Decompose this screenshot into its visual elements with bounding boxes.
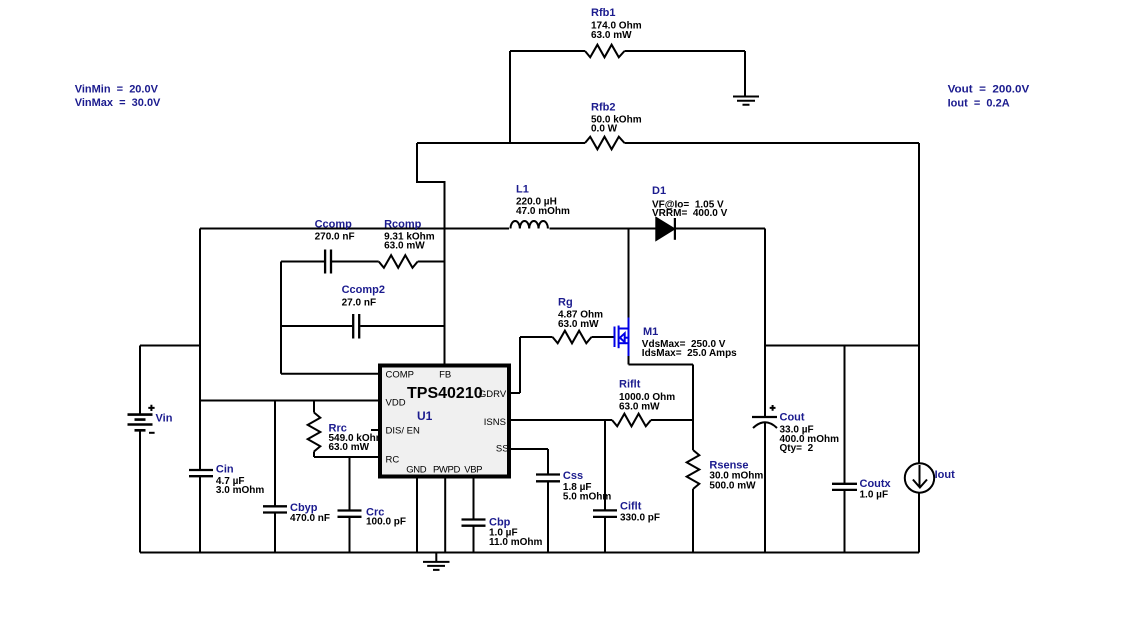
svg-text:330.0 pF: 330.0 pF [620,512,660,523]
resistor Rsense [687,450,700,489]
wire Cbyp branch [274,401,276,553]
resistor Rg [553,331,592,344]
svg-text:63.0 mW: 63.0 mW [558,319,599,330]
svg-text:11.0 mOhm: 11.0 mOhm [489,537,542,548]
wire right vertical x919 [918,143,920,553]
plus sign Cout [770,405,776,411]
svg-text:Vout = 200.0V: Vout = 200.0V [948,84,1030,96]
battery Vin [128,415,153,431]
svg-text:63.0 mW: 63.0 mW [619,401,660,412]
capacitor Ciflt [593,510,617,517]
svg-text:U1: U1 [417,409,433,423]
wire D1 out vertical x765 [764,229,766,553]
resistor Rrc [308,413,321,452]
wire main rail y228 [200,228,765,230]
svg-text:VRRM= 400.0 V: VRRM= 400.0 V [652,208,728,219]
wire ISNS branch [511,419,693,421]
svg-text:Qty= 2: Qty= 2 [780,443,814,454]
wire VBP pin [473,479,475,553]
svg-text:L1: L1 [516,184,529,196]
wire Ccomp2 branch [281,325,445,327]
svg-text:Coutx: Coutx [860,478,892,490]
svg-text:GND: GND [406,464,426,475]
resistor Riflt [612,414,651,427]
svg-text:TPS40210: TPS40210 [407,385,483,402]
svg-text:VBP: VBP [464,464,482,475]
svg-text:Ccomp2: Ccomp2 [342,284,385,296]
wire Ccomp branch [281,261,445,263]
wire SS branch [511,449,548,553]
wire GND pin [416,479,418,553]
wire PWPD pin [444,479,446,553]
minus sign Vin [149,432,155,434]
svg-text:Cout: Cout [780,412,805,424]
svg-text:47.0 mOhm: 47.0 mOhm [516,206,570,217]
wire DIS/EN stub [371,429,378,431]
svg-text:270.0 nF: 270.0 nF [315,231,355,242]
capacitor Cin [189,470,213,476]
svg-text:GDRV: GDRV [479,389,507,400]
wire M1 source to Rsense [629,356,694,451]
svg-text:SS: SS [496,444,509,455]
wire Coutx branch [844,346,846,553]
svg-text:RC: RC [386,455,400,466]
wire left vertical x200 [199,229,201,553]
resistor Rcomp [379,255,418,268]
svg-text:PWPD: PWPD [433,464,460,475]
svg-text:IdsMax= 25.0 Amps: IdsMax= 25.0 Amps [642,348,737,359]
current source Iout [905,463,934,492]
svg-text:Rg: Rg [558,297,573,309]
wire output top link y345 [765,345,919,347]
svg-text:470.0 nF: 470.0 nF [290,513,330,524]
svg-text:COMP: COMP [386,370,415,381]
capacitor Ccomp [325,250,331,274]
svg-text:Iout: Iout [935,469,955,481]
wire left riser Rfb1 to Rfb2 [509,51,511,143]
svg-text:VinMax = 30.0V: VinMax = 30.0V [75,97,161,109]
svg-text:Rfb2: Rfb2 [591,101,615,113]
svg-text:100.0 pF: 100.0 pF [366,517,406,528]
ground (bottom) [423,553,450,570]
svg-text:63.0 mW: 63.0 mW [329,442,370,453]
svg-text:63.0 mW: 63.0 mW [384,241,425,252]
ground (top, Rfb1) [733,97,759,105]
capacitor Cbp [462,520,486,526]
wire FB step [417,143,445,364]
wire comp loop left vertical + COMP wire [281,262,378,374]
svg-text:Css: Css [563,470,583,482]
wire Rg to gate [592,336,614,338]
svg-text:Cin: Cin [216,464,234,476]
svg-text:D1: D1 [652,185,666,197]
wire M1 drain vertical [628,229,630,319]
plus sign Vin [148,405,154,411]
resistor Rfb2 [585,137,625,150]
svg-text:Iout = 0.2A: Iout = 0.2A [948,97,1010,109]
transistor M1 [615,318,629,357]
capacitor Crc [338,511,362,517]
svg-text:63.0 mW: 63.0 mW [591,30,632,41]
wire Rfb2 rail [417,142,919,144]
wire right drop to ground [744,51,746,96]
svg-text:FB: FB [439,370,451,381]
svg-text:Ccomp: Ccomp [315,219,353,231]
svg-text:27.0 nF: 27.0 nF [342,297,376,308]
svg-text:Rsense: Rsense [709,459,748,471]
capacitor Cout (polarized) [752,416,777,418]
wire Vin branch [140,346,200,553]
diode D1 [656,218,674,240]
wire GDRV riser [511,337,553,393]
op-amp U1 IC box TPS40210 [380,366,509,477]
svg-text:500.0 mW: 500.0 mW [709,481,756,492]
svg-text:M1: M1 [643,326,658,338]
svg-text:5.0 mOhm: 5.0 mOhm [563,492,611,503]
svg-text:1.0 µF: 1.0 µF [860,489,889,500]
svg-text:Ciflt: Ciflt [620,501,642,513]
svg-text:Riflt: Riflt [619,379,641,391]
svg-text:DIS/ EN: DIS/ EN [386,426,420,437]
capacitor Coutx [832,484,857,490]
svg-text:ISNS: ISNS [484,417,506,428]
svg-text:Vin: Vin [156,413,173,425]
wire Rsense bottom [692,489,694,553]
svg-text:0.0 W: 0.0 W [591,123,618,134]
svg-text:VinMin = 20.0V: VinMin = 20.0V [75,84,159,96]
wire Ciflt branch [604,420,606,553]
wire Rfb1 branch top [510,50,745,52]
wire Crc branch [349,457,351,553]
svg-text:3.0 mOhm: 3.0 mOhm [216,485,264,496]
svg-text:Rcomp: Rcomp [384,219,422,231]
wire bottom rail [140,552,919,554]
capacitor Cbyp [263,506,287,512]
inductor L1 [511,221,548,229]
wire Rrc branch [314,401,378,458]
capacitor Css [536,475,560,482]
svg-text:Rfb1: Rfb1 [591,7,615,19]
wire VDD rail [200,400,378,402]
capacitor Ccomp2 [353,314,359,339]
resistor Rfb1 [585,45,625,58]
svg-text:VDD: VDD [386,398,406,409]
